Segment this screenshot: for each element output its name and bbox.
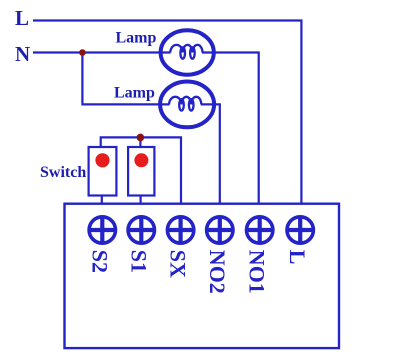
svg-text:N: N [15, 42, 30, 66]
svg-text:NO1: NO1 [245, 250, 270, 294]
svg-text:L: L [285, 250, 310, 265]
svg-text:S2: S2 [87, 250, 112, 273]
svg-text:Lamp: Lamp [114, 85, 155, 102]
svg-text:SX: SX [166, 250, 191, 278]
svg-text:Switch: Switch [40, 164, 86, 181]
svg-text:L: L [15, 6, 29, 30]
svg-text:NO2: NO2 [205, 250, 230, 294]
svg-text:Lamp: Lamp [116, 30, 157, 47]
svg-text:S1: S1 [126, 250, 151, 273]
